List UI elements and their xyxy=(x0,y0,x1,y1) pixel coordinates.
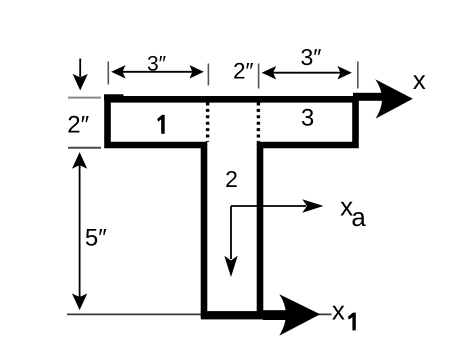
svg-text:3″: 3″ xyxy=(147,53,167,76)
svg-text:3: 3 xyxy=(301,105,314,132)
svg-text:a: a xyxy=(351,202,366,232)
svg-text:3″: 3″ xyxy=(301,44,322,70)
svg-text:2″: 2″ xyxy=(67,111,89,138)
svg-text:2: 2 xyxy=(225,166,238,192)
svg-text:x: x xyxy=(413,65,426,95)
svg-text:2″: 2″ xyxy=(233,58,254,83)
svg-text:5″: 5″ xyxy=(85,225,107,252)
svg-text:x: x xyxy=(332,296,345,326)
